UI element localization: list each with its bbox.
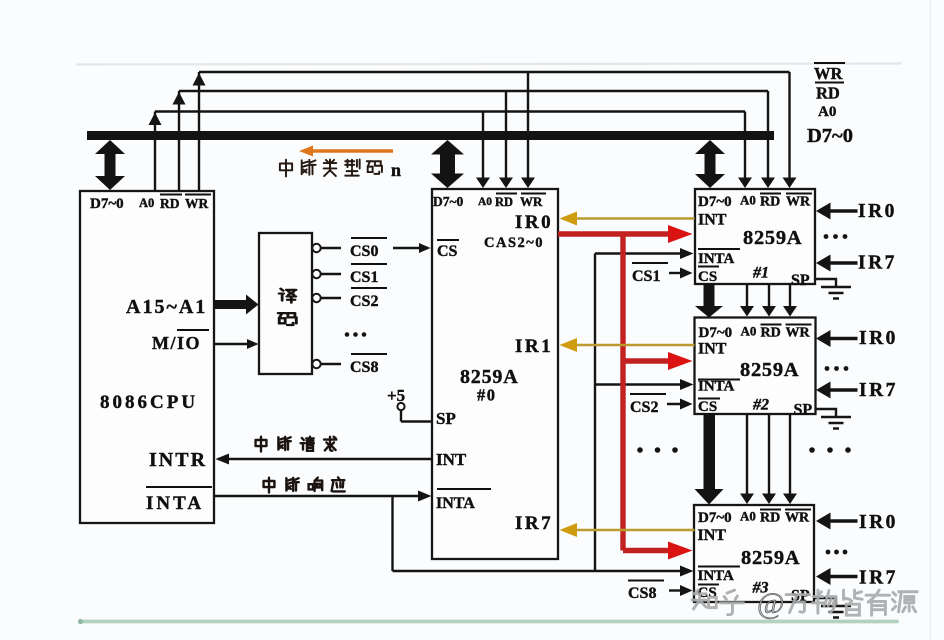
svg-text:WR: WR <box>786 195 811 210</box>
svg-text:CS1: CS1 <box>350 269 378 286</box>
svg-text:CS1: CS1 <box>632 268 660 285</box>
svg-text:n: n <box>391 160 401 180</box>
svg-text:WR: WR <box>185 196 209 211</box>
svg-text:SP: SP <box>436 409 456 428</box>
svg-text:WR: WR <box>786 326 811 341</box>
svg-text:D7~0: D7~0 <box>698 194 732 210</box>
svg-text:CS2: CS2 <box>630 399 658 416</box>
svg-text:INTA: INTA <box>698 379 735 395</box>
svg-text:IR0: IR0 <box>859 512 898 533</box>
svg-text:IR0: IR0 <box>858 201 897 222</box>
svg-text:A0: A0 <box>740 509 756 524</box>
svg-text:A0: A0 <box>139 196 154 210</box>
svg-text:IR0: IR0 <box>859 328 898 349</box>
svg-text:A0: A0 <box>740 193 756 208</box>
svg-text:@: @ <box>757 587 785 620</box>
svg-text:D7~0: D7~0 <box>698 510 732 526</box>
svg-text:RD: RD <box>760 195 780 210</box>
svg-text:RD: RD <box>761 326 781 341</box>
svg-text:A15~A1: A15~A1 <box>126 296 207 318</box>
svg-text:INTA: INTA <box>698 568 735 584</box>
svg-text:WR: WR <box>814 64 844 83</box>
svg-text:INTA: INTA <box>146 493 204 514</box>
svg-text:CS: CS <box>698 269 717 285</box>
svg-text:D7~0: D7~0 <box>90 196 124 212</box>
svg-text:INTA: INTA <box>436 495 475 512</box>
svg-text:IR7: IR7 <box>859 568 898 589</box>
svg-text:IR0: IR0 <box>515 212 553 233</box>
svg-text:CS2: CS2 <box>350 293 378 310</box>
svg-text:M/IO: M/IO <box>152 333 201 353</box>
svg-text:INT: INT <box>698 341 727 358</box>
svg-text:CS: CS <box>698 399 717 415</box>
svg-text:CS8: CS8 <box>628 585 656 602</box>
svg-text:A0: A0 <box>741 324 757 339</box>
svg-text:WR: WR <box>520 194 543 209</box>
svg-text:RD: RD <box>495 195 513 209</box>
svg-text:8259A: 8259A <box>740 359 799 381</box>
svg-text:A0: A0 <box>478 196 492 208</box>
svg-text:#2: #2 <box>752 397 769 414</box>
svg-text:CS: CS <box>437 243 458 260</box>
svg-text:INT: INT <box>436 450 467 469</box>
svg-text:#0: #0 <box>477 386 497 405</box>
svg-text:8259A: 8259A <box>741 547 800 569</box>
svg-text:CAS2~0: CAS2~0 <box>484 235 544 251</box>
svg-text:SP: SP <box>794 402 813 419</box>
svg-text:IR7: IR7 <box>858 253 897 274</box>
svg-text:INT: INT <box>698 527 727 544</box>
svg-text:8086CPU: 8086CPU <box>100 392 198 413</box>
svg-text:IR7: IR7 <box>515 513 553 534</box>
svg-text:IR7: IR7 <box>859 380 898 401</box>
svg-text:CS0: CS0 <box>350 243 378 260</box>
svg-text:CS8: CS8 <box>350 359 378 376</box>
svg-text:8259A: 8259A <box>743 227 802 249</box>
svg-text:WR: WR <box>785 511 810 526</box>
svg-text:RD: RD <box>816 84 840 103</box>
svg-text:INTR: INTR <box>149 449 207 471</box>
svg-text:D7~0: D7~0 <box>699 325 733 341</box>
svg-text:SP: SP <box>791 272 810 289</box>
svg-text:INT: INT <box>698 212 727 229</box>
svg-text:+5: +5 <box>387 386 405 405</box>
svg-text:D7~0: D7~0 <box>807 125 853 147</box>
svg-text:A0: A0 <box>818 104 836 120</box>
svg-text:#1: #1 <box>752 265 769 282</box>
svg-text:IR1: IR1 <box>515 336 553 357</box>
svg-text:D7~0: D7~0 <box>433 194 464 209</box>
svg-text:RD: RD <box>760 511 780 526</box>
svg-text:INTA: INTA <box>698 251 735 267</box>
svg-text:RD: RD <box>160 196 180 211</box>
